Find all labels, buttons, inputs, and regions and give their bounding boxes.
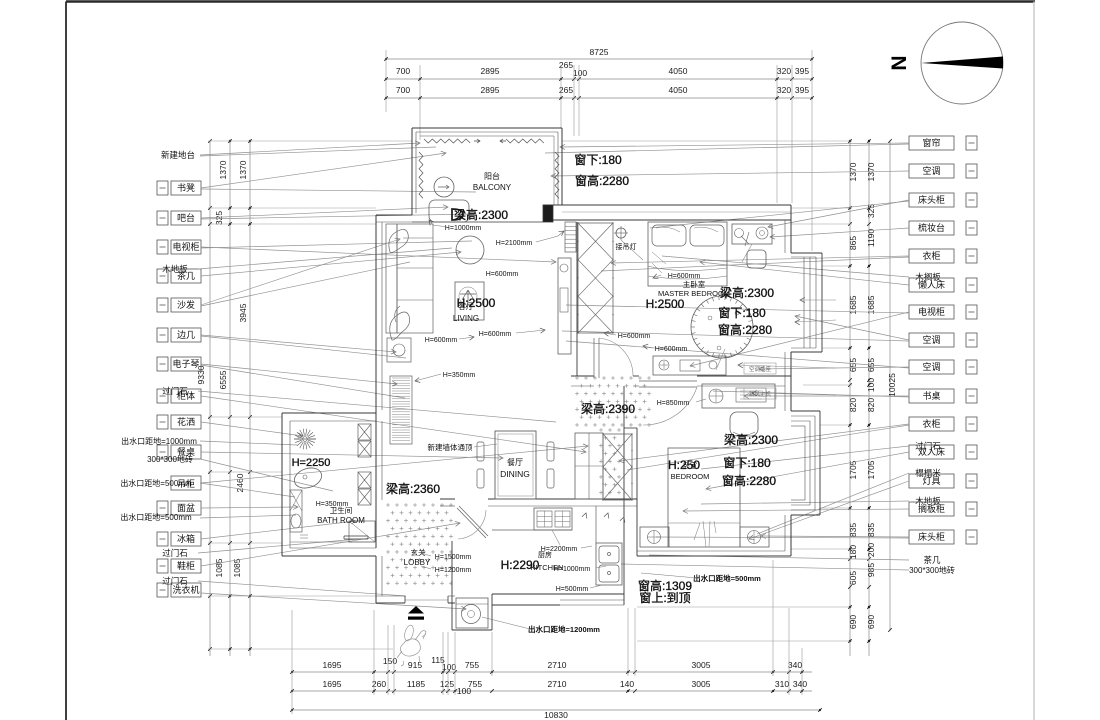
svg-text:3005: 3005 — [692, 679, 711, 689]
leader right yigui2 — [619, 424, 909, 461]
svg-text:懒人床: 懒人床 — [918, 279, 945, 290]
leader left xiegui — [201, 523, 460, 566]
svg-text:325: 325 — [214, 211, 224, 225]
wall master left lower — [576, 222, 578, 376]
page border top — [66, 0, 1035, 3]
svg-text:985: 985 — [866, 563, 876, 577]
svg-text:床头柜: 床头柜 — [918, 531, 945, 542]
svg-text:洗衣机: 洗衣机 — [172, 584, 199, 595]
living sofa back — [386, 224, 397, 333]
wall bathroom left — [281, 413, 283, 556]
svg-text:新风主机: 新风主机 — [749, 390, 772, 398]
living plant symbol — [460, 290, 476, 302]
bedroom2 bay bottom — [791, 514, 820, 516]
left label box dianshigui — [157, 240, 168, 254]
svg-text:灯具: 灯具 — [922, 476, 940, 486]
left label box mianpen — [157, 501, 168, 515]
svg-text:3005: 3005 — [692, 660, 711, 670]
svg-text:310: 310 — [775, 679, 789, 689]
internal leader bed2 — [694, 523, 700, 540]
corridor tile dots lower strip — [599, 429, 603, 431]
svg-text:H=350mm: H=350mm — [443, 372, 476, 379]
svg-text:H=850mm: H=850mm — [657, 400, 690, 407]
svg-text:1085: 1085 — [214, 558, 224, 577]
master tv dresser — [653, 356, 726, 375]
svg-text:H=600mm: H=600mm — [486, 271, 519, 278]
svg-text:1370: 1370 — [238, 160, 248, 179]
entry arrow triangle — [408, 606, 424, 614]
svg-text:H=600mm: H=600mm — [479, 331, 512, 338]
washer nook walls — [491, 594, 493, 630]
boxed label AC socket — [744, 363, 776, 374]
leader left chushui500b — [200, 515, 296, 518]
right label box kongtiao1 — [909, 164, 954, 178]
leader left dianshigui — [201, 247, 556, 262]
bottom dim row2 line — [292, 690, 812, 692]
svg-text:835: 835 — [866, 523, 876, 537]
leader right yigui2b — [627, 425, 909, 470]
bedroom2 door arc — [643, 387, 697, 425]
svg-text:300*300地砖: 300*300地砖 — [147, 454, 193, 464]
balcony window zigzag left side — [419, 152, 423, 198]
leader left xiyiji — [201, 593, 466, 609]
leader left batai2 — [201, 214, 474, 219]
bathroom threshold — [344, 535, 368, 537]
left label box xiegui — [157, 559, 168, 573]
svg-text:755: 755 — [468, 679, 482, 689]
leader right yigui1b — [601, 257, 909, 271]
svg-text:2710: 2710 — [548, 660, 567, 670]
north arrow circle — [921, 22, 1003, 104]
balcony window zigzag top left — [424, 139, 470, 143]
dining chairs left — [477, 442, 484, 461]
svg-text:衣柜: 衣柜 — [922, 418, 940, 429]
bathroom glass column2 — [358, 472, 371, 488]
svg-text:H=1500mm: H=1500mm — [435, 554, 472, 561]
master ceiling lamp — [616, 228, 626, 238]
svg-text:125: 125 — [440, 679, 454, 689]
wall lobby bottom left — [376, 602, 405, 604]
leader left dizhuan300 — [200, 459, 333, 491]
bedroom2 door leaf — [639, 380, 697, 382]
svg-text:140: 140 — [620, 679, 634, 689]
wall master top window lines — [562, 211, 791, 213]
leader left bingxiang — [201, 521, 356, 539]
internal arrows kitchen top — [582, 513, 587, 518]
boxed label fresh air — [744, 388, 776, 399]
svg-text:LOBBY: LOBBY — [404, 558, 431, 567]
right label box dianshigui2 — [909, 305, 954, 319]
balcony window zigzag right side — [555, 152, 559, 198]
svg-text:H=1000mm: H=1000mm — [445, 225, 482, 232]
leader left shudeng2 — [201, 189, 476, 192]
svg-text:H=500mm: H=500mm — [556, 586, 589, 593]
wall bathroom top — [282, 412, 376, 414]
leader right dizhuan2 — [621, 564, 909, 570]
svg-text:窗高:2280: 窗高:2280 — [722, 473, 776, 488]
wall bathroom right (living left lower) — [375, 413, 377, 548]
svg-text:书桌: 书桌 — [922, 390, 940, 401]
left label box xiyiji — [157, 583, 168, 597]
svg-text:书凳: 书凳 — [177, 183, 195, 193]
leader left chushui1000 — [200, 441, 297, 445]
wall corridor right vert — [623, 386, 625, 428]
svg-text:窗帘: 窗帘 — [922, 137, 940, 148]
bedroom2 bed sheet lines — [703, 521, 716, 547]
wall right mid — [790, 352, 792, 411]
kitchen door leaf — [457, 508, 486, 538]
svg-text:H=600mm: H=600mm — [618, 333, 651, 340]
svg-text:H=600mm: H=600mm — [668, 273, 701, 280]
internal leader vanity — [742, 244, 752, 262]
left label box huasa — [157, 415, 168, 429]
internal arrow master window — [795, 320, 836, 322]
top dim extension lines — [385, 50, 387, 112]
wall master bottom left stub — [571, 375, 594, 377]
svg-text:出水口距地=500mm: 出水口距地=500mm — [120, 512, 192, 522]
leader right dianshigui2b — [566, 305, 909, 313]
wall kitchen right — [623, 504, 625, 556]
master bed pillows — [652, 225, 686, 246]
svg-text:10025: 10025 — [887, 373, 897, 397]
bedroom2 nightstand left — [640, 527, 669, 547]
wall master top inner — [543, 219, 791, 221]
right label box yigui2 — [909, 417, 954, 431]
wall lobby left — [375, 556, 377, 603]
leader left dianziqin2 — [201, 365, 405, 398]
page border right — [1033, 2, 1035, 720]
svg-text:340: 340 — [788, 660, 802, 670]
svg-text:690: 690 — [848, 615, 858, 629]
living plant box — [455, 282, 484, 320]
wall master top outer — [543, 204, 791, 206]
svg-text:梁高:2390: 梁高:2390 — [581, 401, 635, 416]
bottom dim row1 ticks — [290, 670, 294, 674]
leader right chuanglian — [560, 143, 909, 147]
shelf ladder right of balcony — [565, 222, 576, 252]
leader right shuzhuangtai — [770, 228, 909, 237]
corridor tile dots — [575, 377, 579, 379]
svg-text:窗下:180: 窗下:180 — [718, 306, 766, 320]
right label box gebangui — [909, 502, 954, 516]
svg-text:面盆: 面盆 — [177, 502, 195, 513]
leader right dianshigui2 — [690, 312, 909, 366]
svg-text:双人床: 双人床 — [918, 446, 945, 457]
svg-text:梁高:2300: 梁高:2300 — [720, 285, 774, 300]
master vanity — [732, 224, 772, 244]
top dim row3 ticks — [384, 96, 388, 100]
svg-text:H:250: H:250 — [668, 458, 700, 472]
leader right chaji2 — [649, 555, 909, 560]
svg-text:吧台: 吧台 — [177, 212, 195, 223]
right label box chuangtougui1 — [909, 193, 954, 207]
svg-text:出水口距地=1000mm: 出水口距地=1000mm — [121, 436, 197, 446]
svg-text:H:2500: H:2500 — [646, 297, 685, 311]
svg-text:边几: 边几 — [177, 330, 195, 340]
left label box shafa — [157, 298, 168, 312]
leader right chuangtougui1 — [768, 200, 909, 227]
svg-text:340: 340 — [793, 679, 807, 689]
lobby tile dots — [386, 504, 390, 506]
svg-text:755: 755 — [465, 660, 479, 670]
kitchen sink basins — [599, 546, 619, 563]
svg-text:冰箱: 冰箱 — [177, 533, 195, 544]
left label box batai — [157, 211, 168, 225]
svg-text:吊柜: 吊柜 — [177, 478, 195, 489]
svg-text:N: N — [888, 55, 911, 70]
svg-text:150: 150 — [383, 656, 397, 666]
master door leaf — [593, 338, 595, 378]
right label box chuanglian — [909, 136, 954, 150]
right label box kongtiao2 — [909, 333, 954, 347]
svg-text:搁板柜: 搁板柜 — [918, 503, 945, 514]
bedroom2 wardrobe hatched — [603, 434, 632, 500]
svg-text:H=600mm: H=600mm — [425, 337, 458, 344]
svg-text:茶几: 茶几 — [177, 270, 195, 281]
svg-text:690: 690 — [866, 615, 876, 629]
svg-text:2895: 2895 — [481, 85, 500, 95]
svg-text:窗高:2280: 窗高:2280 — [718, 322, 772, 337]
top dim row3 line — [386, 97, 812, 99]
dining chairs right — [547, 442, 554, 461]
svg-text:梁高:2300: 梁高:2300 — [724, 432, 778, 447]
leader left bianji2 — [201, 336, 406, 358]
master door arc — [599, 338, 633, 376]
bathroom tub oval — [292, 465, 325, 492]
svg-text:H=350mm: H=350mm — [316, 501, 349, 508]
living round table — [456, 236, 484, 264]
svg-text:接吊灯: 接吊灯 — [616, 242, 637, 251]
right label box chuangtougui2 — [909, 530, 954, 544]
svg-text:H=2100mm: H=2100mm — [496, 240, 533, 247]
bathroom shower sunburst — [309, 438, 316, 440]
svg-text:餐厅: 餐厅 — [507, 458, 523, 467]
svg-text:700: 700 — [396, 66, 410, 76]
wall bedroom2 right — [790, 515, 792, 556]
right label box shuzhuo1 — [909, 389, 954, 403]
wall living left — [375, 215, 377, 413]
svg-text:10830: 10830 — [544, 710, 568, 720]
entry threshold — [405, 599, 448, 601]
leader left guomenshi2 — [198, 539, 358, 553]
svg-text:320: 320 — [777, 85, 791, 95]
svg-text:4050: 4050 — [669, 85, 688, 95]
svg-text:325: 325 — [866, 204, 876, 218]
left label box bianji — [157, 328, 168, 342]
svg-text:鞋柜: 鞋柜 — [177, 560, 195, 571]
svg-text:1695: 1695 — [323, 679, 342, 689]
svg-text:新建墙体通顶: 新建墙体通顶 — [428, 442, 473, 452]
bottom dim total line — [292, 709, 820, 711]
svg-text:2895: 2895 — [481, 66, 500, 76]
leader right mugeban — [662, 256, 909, 277]
svg-text:200: 200 — [866, 543, 876, 557]
svg-text:出水口距地=500mm: 出水口距地=500mm — [693, 573, 761, 583]
leader right shuzhuo1b — [713, 391, 909, 397]
bedroom2 bay top — [791, 410, 820, 412]
balcony round fan — [434, 177, 454, 197]
bathroom shower arm — [294, 438, 316, 440]
kitchen stove — [534, 508, 572, 530]
wall lobby bottom right — [448, 602, 455, 604]
north arrow needle — [921, 57, 1003, 69]
svg-text:8725: 8725 — [590, 47, 609, 57]
kitchen counter edge right — [595, 506, 597, 543]
bathroom sink cabinet — [290, 490, 302, 532]
left label box shudeng — [157, 181, 168, 195]
wall bedroom2 bottom — [637, 555, 791, 557]
leader left mudiban — [198, 248, 452, 269]
leader left bianji — [201, 335, 396, 352]
svg-text:LIVING: LIVING — [453, 314, 479, 323]
leader right shuzhuo1 — [744, 395, 909, 397]
svg-text:梳妆台: 梳妆台 — [918, 222, 945, 233]
leader left xinjianditai — [200, 143, 420, 155]
svg-text:BEDROOM: BEDROOM — [671, 472, 710, 481]
svg-text:H=2250: H=2250 — [292, 457, 331, 469]
right label box lanrenchuang — [909, 278, 954, 292]
svg-text:玄关: 玄关 — [411, 547, 426, 557]
internal leader stove — [552, 530, 560, 545]
svg-text:1685: 1685 — [866, 295, 876, 314]
svg-text:H=2200mm: H=2200mm — [541, 546, 578, 553]
leader right yigui1 — [611, 256, 909, 263]
svg-text:320: 320 — [777, 66, 791, 76]
top dim row2 line — [386, 78, 812, 80]
svg-text:100: 100 — [866, 378, 876, 392]
svg-text:1190: 1190 — [866, 229, 876, 248]
svg-text:梁高:2300: 梁高:2300 — [454, 207, 508, 222]
svg-text:4050: 4050 — [669, 66, 688, 76]
svg-text:电子琴: 电子琴 — [172, 358, 199, 369]
master rug inner dots — [708, 316, 712, 320]
svg-text:1705: 1705 — [866, 460, 876, 479]
top dim total line — [386, 58, 812, 60]
left label box guiti — [157, 389, 168, 403]
wall balcony top outer — [412, 127, 562, 129]
leader left chaji — [201, 252, 461, 276]
wall balcony top inner lines — [416, 131, 558, 133]
wall balcony left — [411, 128, 413, 215]
svg-text:1695: 1695 — [323, 660, 342, 670]
left dim extension stubs — [208, 140, 412, 142]
svg-text:主卧室: 主卧室 — [683, 279, 706, 289]
svg-text:180: 180 — [848, 545, 858, 559]
living piano hatched — [390, 376, 412, 444]
svg-text:395: 395 — [795, 85, 809, 95]
left label box dianziqin — [157, 357, 168, 371]
svg-text:沙发: 沙发 — [177, 299, 195, 310]
leader right dengju — [749, 481, 909, 539]
bedroom2 bed — [668, 448, 740, 547]
kitchen door arc — [458, 510, 486, 539]
leader left chushui500a — [200, 483, 295, 497]
leader right tatami — [757, 473, 909, 534]
leader right kongtiao3 — [759, 367, 909, 369]
right label box dengju — [909, 474, 954, 488]
svg-text:电视柜: 电视柜 — [172, 241, 199, 252]
svg-text:BALCONY: BALCONY — [473, 183, 512, 192]
balcony zigzag arrows — [474, 139, 480, 143]
master bay window bottom — [791, 351, 822, 353]
dining table — [495, 431, 536, 499]
svg-text:395: 395 — [795, 66, 809, 76]
svg-text:3945: 3945 — [238, 303, 248, 322]
svg-text:820: 820 — [848, 398, 858, 412]
wall master right end — [790, 205, 792, 253]
svg-text:过门石: 过门石 — [162, 548, 188, 558]
living side table — [387, 338, 411, 362]
svg-text:H:2500: H:2500 — [457, 296, 496, 310]
leader left batai — [201, 207, 448, 218]
bottom dim row1 line — [292, 671, 812, 673]
svg-text:655: 655 — [848, 358, 858, 372]
page border left — [65, 2, 67, 720]
bedroom2 nightstand right — [740, 527, 769, 547]
right dim vertical lines — [849, 141, 851, 656]
left label box canzhuo — [157, 445, 168, 459]
balcony window zigzag top right — [506, 139, 544, 143]
bathroom glass column — [358, 424, 371, 440]
svg-text:花洒: 花洒 — [177, 416, 195, 427]
leader left shafa2 — [201, 262, 410, 306]
svg-text:H=600mm: H=600mm — [655, 346, 688, 353]
svg-text:605: 605 — [848, 571, 858, 585]
svg-text:100: 100 — [573, 68, 587, 78]
svg-text:H=1200mm: H=1200mm — [435, 567, 472, 574]
leader right chuanglian2 — [545, 144, 909, 153]
living sofa seat — [397, 224, 433, 333]
svg-text:H=1000mm: H=1000mm — [554, 566, 591, 573]
svg-text:DINING: DINING — [500, 469, 530, 479]
living tv speaker — [560, 264, 568, 272]
bedroom2 desk — [702, 384, 775, 408]
svg-text:窗下:180: 窗下:180 — [723, 456, 771, 470]
leader left shafa — [201, 239, 400, 305]
bottom dim row2 ticks — [290, 689, 294, 693]
right label box kongtiao3 — [909, 360, 954, 374]
svg-text:1085: 1085 — [232, 558, 242, 577]
svg-text:空调: 空调 — [922, 361, 940, 372]
svg-text:空调: 空调 — [922, 334, 940, 345]
wall lobby-kitchen lower — [451, 541, 453, 594]
internal leader master lamp — [621, 240, 643, 260]
leader left huasa — [201, 422, 303, 436]
leader left shudeng — [201, 153, 446, 188]
leader right chuangtougui1b — [650, 201, 909, 228]
leader left mianpen — [201, 507, 298, 508]
wall bedroom2 left upper — [636, 428, 638, 504]
leader right kongtiao2 — [795, 316, 909, 340]
wall kitchen bottom — [492, 593, 624, 595]
living sofa pillow top — [389, 229, 408, 252]
svg-text:出水口距地=1200mm: 出水口距地=1200mm — [528, 624, 600, 634]
left label box bingxiang — [157, 532, 168, 546]
svg-text:柜体: 柜体 — [177, 390, 195, 401]
internal arrow bedroom window1 — [738, 365, 836, 368]
svg-text:700: 700 — [396, 85, 410, 95]
leader right mudiban2 — [701, 501, 909, 504]
washing machine — [456, 598, 488, 628]
wall kitchen top — [440, 498, 455, 500]
svg-text:H:2290: H:2290 — [501, 558, 540, 572]
leader right lanrenchuang — [700, 262, 909, 285]
bedroom2 bay right — [819, 411, 821, 515]
right label box yigui1 — [909, 249, 954, 263]
svg-text:电视柜: 电视柜 — [918, 306, 945, 317]
leader right gebangui — [683, 509, 909, 511]
bottom dim total ticks — [290, 708, 294, 712]
